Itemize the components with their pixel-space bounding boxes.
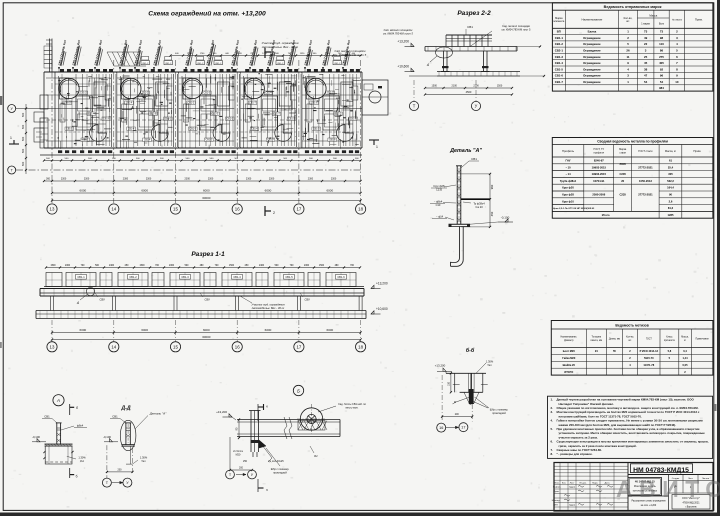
svg-text:Труба ф38х4: Труба ф38х4 <box>560 179 577 183</box>
svg-text:пакета, мм: пакета, мм <box>591 340 603 342</box>
svg-text:СВ1-2: СВ1-2 <box>215 63 222 65</box>
svg-text:СВ1-4: СВ1-4 <box>555 61 564 65</box>
svg-text:+13,200: +13,200 <box>216 410 227 414</box>
svg-text:1500: 1500 <box>50 265 56 267</box>
detail B break marks <box>284 417 287 439</box>
svg-text:Участок туд. ограждения: Участок туд. ограждения <box>251 303 285 307</box>
frame-edge smudges <box>0 96 2 105</box>
svg-text:532,2: 532,2 <box>667 179 674 183</box>
svg-text:25: 25 <box>644 55 648 59</box>
svg-text:90: 90 <box>669 193 672 197</box>
svg-text:-0,100: -0,100 <box>32 435 40 439</box>
svg-text:СВ1-6: СВ1-6 <box>555 74 564 78</box>
svg-text:2100: 2100 <box>473 85 479 88</box>
svg-text:2400: 2400 <box>109 265 115 267</box>
svg-text:6000: 6000 <box>265 189 272 193</box>
svg-text:2300: 2300 <box>308 178 314 181</box>
svg-text:профиля: профиля <box>594 151 605 154</box>
section 2-2 dim chain <box>425 87 512 89</box>
plan dimension total row <box>52 200 361 202</box>
svg-text:98: 98 <box>660 36 664 40</box>
svg-text:Кол-во,: Кол-во, <box>626 337 634 339</box>
svg-text:500: 500 <box>21 161 25 166</box>
svg-text:2,6: 2,6 <box>669 199 673 203</box>
svg-text:Автомобильн. Вес - 30 кг: Автомобильн. Вес - 30 кг <box>261 45 299 49</box>
svg-text:6.: 6. <box>551 440 554 444</box>
svg-text:5915-70: 5915-70 <box>644 356 654 360</box>
scan noise speckle <box>457 13 458 14</box>
svg-text:Масса,: Масса, <box>681 337 689 339</box>
detail D-D slope note <box>126 463 133 465</box>
plan row bubble T <box>8 166 16 174</box>
section 1-1 right elevations <box>371 285 374 288</box>
section 1-1 axis drop lines <box>51 320 53 342</box>
detail B cut marker bottom <box>257 479 259 492</box>
plan row bubble U <box>8 105 16 113</box>
svg-text:СВ1-7: СВ1-7 <box>555 80 564 84</box>
svg-text:СВ1-3: СВ1-3 <box>288 119 295 121</box>
section 2-2 fence label <box>465 29 467 35</box>
svg-text:2300: 2300 <box>269 178 275 181</box>
table of shipping marks <box>552 3 713 91</box>
svg-text:2300: 2300 <box>169 265 175 267</box>
plan left appendix <box>40 95 48 109</box>
notes block border <box>548 396 713 458</box>
svg-text:ГОСТ стали: ГОСТ стали <box>638 149 653 153</box>
svg-text:Сводная ведомость металла по п: Сводная ведомость металла по профилям <box>597 140 668 144</box>
svg-text:1.30%: 1.30% <box>140 455 148 459</box>
svg-text:6000: 6000 <box>141 328 148 332</box>
svg-text:6000: 6000 <box>80 189 87 193</box>
svg-text:1.: 1. <box>551 398 554 402</box>
svg-text:+10,600: +10,600 <box>376 307 388 311</box>
detail D-D bottom dim <box>107 471 133 473</box>
scan edge band right <box>717 0 720 516</box>
section 2-2 beam <box>425 46 517 48</box>
svg-text:Н.контр.: Н.контр. <box>552 500 561 502</box>
section cut marker 1 left <box>9 143 19 145</box>
section 1-1 upper beam <box>40 288 364 290</box>
svg-text:86: 86 <box>660 49 664 53</box>
svg-text:А: А <box>56 398 60 403</box>
svg-text:Цепь 2,5-1-Пч ОТУ ОК НР 30363(: Цепь 2,5-1-Пч ОТУ ОК НР 30363(305-93 <box>553 208 595 210</box>
section 2-2 beam extension lines <box>517 46 541 48</box>
section 1-1 fence panels <box>44 286 364 288</box>
svg-text:Зудов: Зудов <box>569 487 576 489</box>
svg-text:81,2: 81,2 <box>668 206 674 210</box>
svg-text:16: 16 <box>235 207 240 212</box>
svg-text:6000: 6000 <box>80 328 87 332</box>
svg-text:1285: 1285 <box>668 213 674 217</box>
plan axis bubbles <box>47 204 57 214</box>
detail b-b bottom dim <box>442 416 472 418</box>
svg-text:С235: С235 <box>619 172 626 176</box>
plan dimension chain row 1 <box>44 160 361 162</box>
svg-text:г.Воронеж: г.Воронеж <box>685 506 696 509</box>
svg-text:45: 45 <box>644 61 648 65</box>
svg-text:СВ1-1: СВ1-1 <box>227 119 234 121</box>
svg-text:17: 17 <box>296 344 301 349</box>
svg-text:ГИП: ГИП <box>553 505 558 507</box>
svg-text:2300: 2300 <box>304 265 310 267</box>
svg-text:Ограждение: Ограждение <box>583 55 601 59</box>
svg-text:прокладкой: прокладкой <box>492 412 506 415</box>
svg-text:Деталь "А": Деталь "А" <box>449 148 482 154</box>
svg-text:Примечание: Примечание <box>695 338 709 340</box>
svg-text:450: 450 <box>490 211 494 216</box>
svg-text:47: 47 <box>644 74 648 78</box>
svg-text:500: 500 <box>21 112 25 117</box>
plan top small label boxes <box>141 61 149 65</box>
section cut marker 2 top <box>264 48 266 58</box>
svg-text:6000: 6000 <box>203 328 210 332</box>
svg-text:− ф8х4: − ф8х4 <box>434 200 443 204</box>
svg-text:СВ1-1: СВ1-1 <box>555 36 564 40</box>
svg-text:1,44: 1,44 <box>682 356 688 360</box>
svg-text:Ограждение: Ограждение <box>583 67 601 71</box>
svg-text:прочности: прочности <box>664 340 676 342</box>
svg-text:500: 500 <box>21 124 25 129</box>
svg-text:2100: 2100 <box>452 85 458 88</box>
svg-text:16: 16 <box>439 426 443 430</box>
svg-text:СВ1-3: СВ1-3 <box>350 119 357 121</box>
svg-text:элемента: элемента <box>553 20 565 23</box>
svg-text:Всех: Всех <box>659 22 665 25</box>
svg-text:СВ1-6: СВ1-6 <box>337 275 345 279</box>
svg-text:прокладкой: прокладкой <box>273 472 287 475</box>
detail A elevation flag <box>505 219 508 222</box>
svg-text:Ограждение: Ограждение <box>583 49 601 53</box>
svg-text:+13,200: +13,200 <box>376 282 388 286</box>
svg-text:54: 54 <box>644 80 648 84</box>
section 1-1 axis bubbles <box>47 342 57 352</box>
title block middle name cell <box>628 495 669 497</box>
svg-text:10704-91: 10704-91 <box>593 179 605 183</box>
svg-text:СВ1-3: СВ1-3 <box>181 275 189 279</box>
svg-text:кг: кг <box>684 340 686 342</box>
detail B left bracket <box>250 411 252 453</box>
plan ladder diagonals <box>107 52 114 66</box>
svg-text:− ф14: − ф14 <box>436 215 444 219</box>
section 1-1 total dim <box>52 339 361 341</box>
detail B dashed housing <box>298 421 325 431</box>
svg-text:19903-2015: 19903-2015 <box>592 172 607 176</box>
svg-text:Ограждение: Ограждение <box>583 61 601 65</box>
svg-text:Б1: Б1 <box>314 454 318 458</box>
svg-text:73: 73 <box>660 30 664 34</box>
svg-text:С10: С10 <box>436 203 441 207</box>
plan module between axis 17 and 18 <box>301 72 303 148</box>
svg-text:2400: 2400 <box>259 265 265 267</box>
detail B axis bubbles <box>226 470 235 479</box>
svg-text:305: 305 <box>668 172 673 176</box>
svg-text:Ограждение: Ограждение <box>583 42 601 46</box>
detail b-b elevation <box>443 368 446 371</box>
detail B left column <box>252 452 254 457</box>
svg-text:Ограждение: Ограждение <box>583 74 601 78</box>
svg-text:СВ1-1: СВ1-1 <box>77 275 85 279</box>
svg-text:СВ1-2: СВ1-2 <box>142 63 149 65</box>
plan module between axis 13 and 14 <box>54 72 56 148</box>
plan module between axis 15 and 16 <box>178 72 180 148</box>
svg-text:20: 20 <box>621 179 624 183</box>
svg-text:Изм.: Изм. <box>555 482 560 484</box>
detail D-D ellipse callout <box>120 420 136 450</box>
svg-text:СВ9: СВ9 <box>99 298 105 302</box>
summary steel table <box>552 138 713 219</box>
svg-text:б: б <box>76 406 78 410</box>
detail b-b top line <box>446 372 486 374</box>
svg-text:10: 10 <box>675 80 679 84</box>
detail b-b side ticks <box>453 384 460 386</box>
svg-text:30000: 30000 <box>202 335 211 339</box>
detail b-b left dim <box>450 373 452 392</box>
svg-text:Разрез 1-1: Разрез 1-1 <box>191 251 225 258</box>
svg-text:СВ1-4: СВ1-4 <box>233 275 241 279</box>
svg-text:2300: 2300 <box>208 178 214 181</box>
svg-text:АВИТО: АВИТО <box>616 476 720 502</box>
svg-text:Р ИСО 4014-13: Р ИСО 4014-13 <box>640 349 659 353</box>
detail B cut marker top <box>257 404 259 421</box>
svg-text:СВ1-3: СВ1-3 <box>204 93 211 95</box>
svg-text:15: 15 <box>173 207 178 212</box>
svg-text:22: 22 <box>644 42 648 46</box>
svg-text:Подп.: Подп. <box>592 482 598 484</box>
svg-text:27772-2021: 27772-2021 <box>638 193 653 197</box>
section 1-1 column drops <box>50 296 52 311</box>
svg-text:ГНУ: ГНУ <box>566 159 571 163</box>
detail A right dims <box>489 174 491 227</box>
svg-text:73: 73 <box>644 30 648 34</box>
svg-text:Лист: Лист <box>570 482 575 484</box>
svg-text:14: 14 <box>111 207 116 212</box>
plan top annotation leaders <box>58 68 60 72</box>
svg-text:1500: 1500 <box>139 265 145 267</box>
detail b-b funnel leaders <box>453 397 471 404</box>
svg-text:СВ1-2: СВ1-2 <box>334 63 341 65</box>
title block designation <box>627 463 629 512</box>
detail D-D axis bubbles <box>102 478 111 487</box>
svg-text:11: 11 <box>626 55 629 59</box>
svg-text:8.: 8. <box>551 452 554 456</box>
svg-text:Длина, мм: Длина, мм <box>609 338 621 340</box>
svg-text:Сад. металл площадки: Сад. металл площадки <box>384 28 413 32</box>
svg-text:− 10: − 10 <box>565 165 571 169</box>
plan module between axis 16 and 17 <box>239 72 241 148</box>
svg-text:1 марки: 1 марки <box>641 22 650 25</box>
svg-text:17: 17 <box>461 426 465 430</box>
svg-text:Ведомость метизов: Ведомость метизов <box>615 323 648 327</box>
svg-text:360: 360 <box>46 178 51 181</box>
detail D-D post <box>125 423 127 445</box>
section 2-2 fence <box>446 34 492 36</box>
svg-text:Сж 20: Сж 20 <box>475 205 483 209</box>
svg-text:стали: стали <box>620 151 627 154</box>
svg-text:27772-2021: 27772-2021 <box>638 165 653 169</box>
svg-text:+13,200: +13,200 <box>397 40 409 44</box>
svg-text:Масса, кг: Масса, кг <box>665 149 676 153</box>
small post ticks <box>43 451 45 453</box>
svg-text:2300: 2300 <box>146 178 152 181</box>
svg-text:№ листа: № листа <box>672 18 682 21</box>
svg-text:СВ1-2: СВ1-2 <box>142 93 149 95</box>
svg-text:ф8х4: ф8х4 <box>77 424 84 428</box>
plan top dim chain <box>171 55 361 57</box>
svg-text:Разраб.: Разраб. <box>553 487 561 489</box>
svg-text:ГОСТ: ГОСТ <box>646 338 652 340</box>
svg-text:№ док.: № док. <box>579 481 586 484</box>
small post elevation <box>37 439 40 442</box>
svg-text:см. КМ04.783-КМ лист 5: см. КМ04.783-КМ лист 5 <box>334 53 367 57</box>
svg-text:1500: 1500 <box>432 85 438 88</box>
svg-text:17: 17 <box>296 207 301 212</box>
svg-text:-0,100: -0,100 <box>103 435 111 439</box>
svg-text:СВ1-1: СВ1-1 <box>66 129 73 131</box>
svg-text:СВ1: СВ1 <box>44 415 50 419</box>
svg-text:1050-2013: 1050-2013 <box>639 179 652 183</box>
svg-text:Шайба 20: Шайба 20 <box>563 363 576 367</box>
svg-text:Болт М20: Болт М20 <box>563 349 576 353</box>
svg-text:2: 2 <box>273 211 275 215</box>
svg-text:шт.: шт. <box>628 340 632 342</box>
svg-text:Ограждение: Ограждение <box>583 36 601 40</box>
svg-text:275: 275 <box>659 55 664 59</box>
svg-text:СВ1: СВ1 <box>471 157 477 161</box>
svg-text:Толщина: Толщина <box>592 337 602 339</box>
svg-text:1500: 1500 <box>497 85 503 88</box>
svg-text:2590-2006: 2590-2006 <box>592 193 605 197</box>
svg-text:1500: 1500 <box>319 265 325 267</box>
svg-text:СВ1-6: СВ1-6 <box>103 119 110 121</box>
section 2-2 lower beam <box>437 71 520 73</box>
svg-text:200: 200 <box>118 469 123 472</box>
svg-text:СВ1-1: СВ1-1 <box>165 119 172 121</box>
detail A marker circle <box>53 395 64 406</box>
svg-text:11371-78: 11371-78 <box>643 363 654 367</box>
svg-text:Зудов: Зудов <box>569 505 576 507</box>
plan dimension chain row 2 <box>44 180 361 182</box>
svg-text:С345: С345 <box>619 162 626 166</box>
detail A post top label <box>461 161 469 168</box>
svg-text:СВ1-5: СВ1-5 <box>555 67 564 71</box>
svg-text:Дата: Дата <box>605 482 611 484</box>
svg-text:СВ1-5: СВ1-5 <box>285 275 293 279</box>
svg-text:92: 92 <box>660 67 664 71</box>
svg-text:СВ1-4: СВ1-4 <box>265 93 272 95</box>
detail B right leader note <box>318 406 336 412</box>
svg-text:4.: 4. <box>551 419 554 423</box>
svg-text:СВ1-6: СВ1-6 <box>329 140 336 142</box>
svg-text:Шбр с полимер.: Шбр с полимер. <box>271 468 290 471</box>
detail B marker circle <box>293 385 303 395</box>
svg-text:38: 38 <box>644 67 648 71</box>
svg-text:Разрез 2-2: Разрез 2-2 <box>457 10 491 17</box>
svg-text:Прим.: Прим. <box>695 17 703 21</box>
detail b-b slope label <box>476 363 486 373</box>
svg-text:СВ1-5: СВ1-5 <box>313 129 320 131</box>
plan module between axis 14 and 15 <box>116 72 118 148</box>
svg-text:6000: 6000 <box>141 189 148 193</box>
plan top left assembly <box>49 39 51 73</box>
hardware table <box>551 321 713 376</box>
detail B left dim <box>238 420 240 439</box>
svg-text:Т: Т <box>413 104 416 109</box>
plan left vertical dim chain <box>25 104 27 174</box>
detail D-D axis line <box>106 445 108 478</box>
section 2-2 right note leader <box>470 31 492 47</box>
svg-text:б: б <box>76 475 78 479</box>
small post slope note <box>67 456 76 459</box>
svg-text:С235: С235 <box>619 193 626 197</box>
svg-text:6000: 6000 <box>265 328 272 332</box>
svg-text:см. КМ04.783-КМ лист 5: см. КМ04.783-КМ лист 5 <box>383 32 413 36</box>
small post cut marker bottom <box>69 468 71 478</box>
detail A base plate <box>449 223 471 225</box>
svg-text:200: 200 <box>239 467 244 470</box>
svg-text:Прим.: Прим. <box>693 149 701 153</box>
svg-text:Д-Д: Д-Д <box>120 406 130 412</box>
small post base <box>45 443 73 445</box>
svg-text:Укл: Укл <box>80 459 85 463</box>
svg-text:С235: С235 <box>436 188 443 192</box>
svg-text:б-б: б-б <box>466 347 475 354</box>
section 1-1 dim chain <box>52 332 361 334</box>
svg-text:СВ1: СВ1 <box>467 25 473 29</box>
svg-text:Круг ф10: Круг ф10 <box>562 199 574 203</box>
svg-text:2300: 2300 <box>84 178 90 181</box>
svg-text:-0,100: -0,100 <box>501 216 510 220</box>
svg-text:Кол.: Кол. <box>562 482 567 484</box>
plan module separation gaps <box>111 74 117 148</box>
svg-text:СВ1-3: СВ1-3 <box>555 55 564 59</box>
svg-text:* - размеры для справок.: * - размеры для справок. <box>557 452 593 456</box>
svg-text:30000: 30000 <box>202 196 211 200</box>
svg-text:Наименование: Наименование <box>582 17 603 21</box>
detail B elevation <box>229 414 232 417</box>
svg-text:ИТОГО: ИТОГО <box>564 370 573 374</box>
plan band outline <box>44 71 362 73</box>
svg-text:Гайка М20: Гайка М20 <box>562 356 576 360</box>
svg-text:+13,200: +13,200 <box>435 364 446 368</box>
svg-text:500: 500 <box>21 136 25 141</box>
svg-text:СВ1-2: СВ1-2 <box>197 63 204 65</box>
svg-text:500: 500 <box>21 148 25 153</box>
detail b-b axis bubbles <box>437 423 446 432</box>
section 2-2 total dim <box>425 94 512 96</box>
svg-text:Ведомость отправочных марок: Ведомость отправочных марок <box>604 5 662 9</box>
svg-text:13: 13 <box>50 344 55 349</box>
svg-text:Балка: Балка <box>588 30 597 34</box>
svg-text:2300: 2300 <box>65 265 71 267</box>
svg-text:СВ1-2: СВ1-2 <box>555 42 564 46</box>
svg-text:Укл: Укл <box>141 459 146 463</box>
detail B rails <box>237 419 340 421</box>
svg-text:СВ9: СВ9 <box>304 298 310 302</box>
svg-text:1.30%: 1.30% <box>78 455 86 459</box>
svg-text:Сад. металл площадки: Сад. металл площадки <box>502 24 530 28</box>
svg-text:110: 110 <box>659 42 664 46</box>
svg-text:1.30%: 1.30% <box>486 359 494 363</box>
svg-text:Тр ф38х4: Тр ф38х4 <box>473 202 485 206</box>
svg-text:Автомобильн. Вес - 30 кг: Автомобильн. Вес - 30 кг <box>251 306 285 310</box>
section 2-2 lower elevation <box>411 68 414 71</box>
svg-text:Масса: Масса <box>649 13 657 17</box>
svg-text:М: М <box>454 402 456 404</box>
svg-text:на отм. +4,200: на отм. +4,200 <box>641 505 657 507</box>
small post <box>56 423 58 444</box>
svg-text:2300: 2300 <box>123 178 129 181</box>
svg-text:Класс: Класс <box>666 337 673 339</box>
